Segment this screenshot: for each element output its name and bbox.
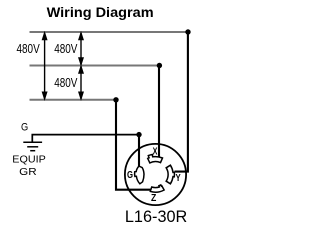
- dimension arrow 480V line1-line2: [79, 33, 84, 66]
- svg-text:EQUIP: EQUIP: [12, 153, 46, 165]
- slot G: [135, 166, 144, 184]
- svg-text:G: G: [21, 122, 28, 134]
- svg-text:G: G: [127, 170, 133, 181]
- wire ground to G terminal: [138, 135, 140, 167]
- slot Y: [166, 165, 174, 184]
- dimension arrow 480V line2-line3: [79, 66, 84, 99]
- wire phase3 to Z terminal: [116, 100, 151, 190]
- node junction phase2: [157, 63, 162, 68]
- wire phase2 to X terminal: [158, 66, 160, 158]
- wire phase line 1: [30, 31, 189, 33]
- svg-text:Z: Z: [151, 193, 156, 204]
- svg-text:L16-30R: L16-30R: [125, 207, 187, 226]
- wire phase line 2: [30, 65, 160, 67]
- slot Z: [150, 185, 164, 192]
- svg-text:Y: Y: [176, 173, 182, 184]
- node junction phase1: [185, 29, 190, 34]
- svg-text:480V: 480V: [17, 42, 41, 56]
- svg-text:GR: GR: [19, 166, 37, 178]
- svg-text:Wiring Diagram: Wiring Diagram: [47, 5, 154, 20]
- node junction ground wire: [136, 132, 141, 137]
- svg-text:480V: 480V: [54, 42, 78, 56]
- wire equipment ground: [32, 135, 139, 142]
- wire phase1 to Y terminal: [175, 32, 188, 172]
- wire phase line 3: [30, 99, 117, 101]
- dimension arrow 480V line1-line3: [42, 33, 47, 100]
- ground symbol: [23, 142, 42, 150]
- slot X: [148, 155, 163, 163]
- receptacle body L16-30R: [125, 144, 186, 205]
- svg-text:480V: 480V: [54, 76, 78, 90]
- node junction phase3: [113, 97, 118, 102]
- svg-text:X: X: [153, 147, 158, 158]
